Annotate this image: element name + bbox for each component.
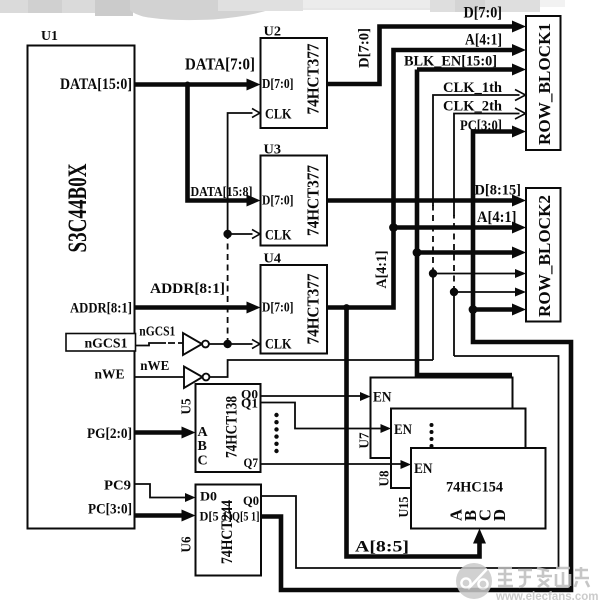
svg-text:74HCT377: 74HCT377 (304, 273, 323, 344)
svg-text:ROW_BLOCK2: ROW_BLOCK2 (535, 195, 554, 317)
svg-text:nWE: nWE (140, 358, 169, 373)
svg-text:CLK_2th: CLK_2th (443, 99, 503, 115)
svg-text:A[4:1]: A[4:1] (374, 251, 390, 289)
svg-text:A[8:5]: A[8:5] (355, 539, 409, 556)
svg-text:ADDR[8:1]: ADDR[8:1] (70, 301, 132, 317)
svg-text:U2: U2 (264, 25, 282, 40)
svg-text:EN: EN (394, 422, 412, 438)
svg-text:D[7:0]: D[7:0] (464, 5, 503, 22)
svg-text:D: D (490, 509, 509, 521)
svg-text:Q0: Q0 (243, 493, 259, 508)
svg-text:nGCS1: nGCS1 (139, 324, 175, 339)
svg-text:D[8:15]: D[8:15] (475, 183, 522, 199)
svg-text:EN: EN (414, 461, 433, 477)
svg-text:PC[3:0]: PC[3:0] (460, 118, 502, 134)
svg-text:nWE: nWE (95, 368, 125, 383)
svg-text:PG[2:0]: PG[2:0] (87, 426, 132, 442)
svg-text:74HCT244: 74HCT244 (219, 500, 236, 564)
svg-text:U4: U4 (264, 252, 282, 267)
svg-text:C: C (198, 454, 208, 469)
svg-text:A[4:1]: A[4:1] (465, 32, 502, 49)
svg-text:Q1: Q1 (241, 396, 258, 411)
svg-text:DATA[15:8]: DATA[15:8] (191, 184, 253, 199)
svg-text:U6: U6 (179, 536, 194, 552)
svg-text:DATA[15:0]: DATA[15:0] (60, 76, 132, 93)
svg-text:DATA[7:0]: DATA[7:0] (185, 55, 255, 74)
svg-text:BLK_EN[15:0]: BLK_EN[15:0] (404, 54, 497, 70)
svg-text:D0: D0 (200, 489, 217, 504)
svg-text:PC[3:0]: PC[3:0] (88, 502, 132, 518)
svg-text:S3C44B0X: S3C44B0X (63, 163, 92, 252)
svg-text:nGCS1: nGCS1 (85, 336, 128, 351)
svg-text:www.elecfans.com: www.elecfans.com (495, 591, 598, 603)
svg-text:EN: EN (373, 390, 392, 406)
svg-text:U3: U3 (264, 143, 282, 158)
svg-text:U7: U7 (357, 432, 372, 448)
svg-text:D[7:0]: D[7:0] (262, 301, 294, 316)
svg-text:U5: U5 (179, 398, 194, 414)
svg-text:D[7:0]: D[7:0] (357, 28, 373, 68)
svg-text:ADDR[8:1]: ADDR[8:1] (150, 281, 225, 297)
svg-text:PC9: PC9 (104, 479, 131, 494)
svg-text:CLK: CLK (265, 107, 292, 123)
svg-text:74HC154: 74HC154 (446, 480, 503, 496)
svg-text:B: B (198, 439, 207, 454)
svg-text:D[7:0]: D[7:0] (262, 77, 294, 92)
svg-text:Q7: Q7 (244, 455, 259, 470)
svg-text:74HCT377: 74HCT377 (304, 165, 323, 236)
svg-text:D[7:0]: D[7:0] (262, 194, 294, 209)
svg-text:CLK: CLK (265, 228, 292, 244)
svg-text:CLK: CLK (265, 337, 292, 353)
svg-text:ROW_BLOCK1: ROW_BLOCK1 (535, 23, 554, 145)
svg-text:Q[5 1]: Q[5 1] (232, 509, 260, 524)
svg-text:U8: U8 (377, 470, 392, 486)
svg-text:CLK_1th: CLK_1th (443, 80, 503, 96)
svg-text:U1: U1 (41, 29, 58, 44)
svg-text:U15: U15 (396, 496, 411, 517)
svg-text:A: A (198, 425, 209, 440)
svg-text:74HCT138: 74HCT138 (224, 396, 241, 458)
svg-text:A[4:1]: A[4:1] (477, 209, 517, 226)
svg-text:74HCT377: 74HCT377 (304, 43, 323, 114)
